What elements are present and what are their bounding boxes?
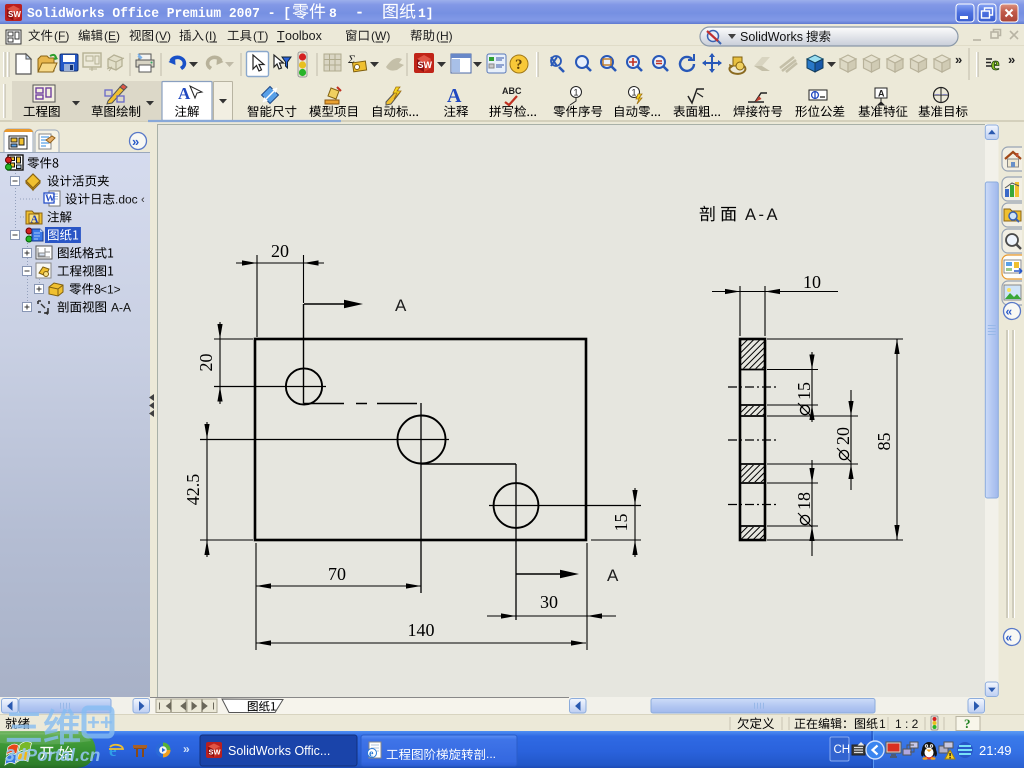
dim 10: dim line + arrows <box>712 291 838 293</box>
status bar <box>0 714 1024 731</box>
canvas vertical scrollbar <box>985 124 999 697</box>
titlebar close button <box>1000 4 1018 22</box>
svg-text:?: ? <box>964 716 971 731</box>
svg-text:SolidWorks: SolidWorks <box>740 30 803 44</box>
dim 20 top: extension lines <box>256 255 258 337</box>
grid icon (disabled) <box>324 54 341 71</box>
centerline C3 / 15 extension <box>489 505 641 507</box>
svg-text:CH: CH <box>834 744 851 756</box>
sheet nav button 2 <box>172 699 187 713</box>
dim 15: extension line bottom <box>591 539 641 541</box>
svg-text:3dPortal.cn: 3dPortal.cn <box>5 745 100 765</box>
svg-text:W: W <box>45 194 55 205</box>
save icon <box>60 54 78 71</box>
草图绘制 tab button <box>105 84 127 104</box>
svg-text:»: » <box>955 52 962 67</box>
svg-text:(H): (H) <box>436 29 453 43</box>
dim 10: extension lines <box>739 286 741 336</box>
panel flyout chevron button <box>130 133 147 150</box>
tray divider <box>871 731 873 768</box>
开始 label <box>40 746 73 760</box>
svg-text:»: » <box>183 742 190 756</box>
display style cube icon <box>807 55 823 72</box>
sheet tab 图纸1 <box>222 699 283 713</box>
dim 42.5: dim line + arrows <box>206 422 208 557</box>
dim ø18: dim line + arrows <box>811 460 813 556</box>
拼写检 button <box>502 86 522 105</box>
dim ø20: dim line + arrows <box>850 390 852 490</box>
open folder icon <box>38 55 58 72</box>
tree item 图纸1 <box>11 231 20 240</box>
dim 42.5: text <box>183 474 203 506</box>
sheet tab strip <box>150 697 570 714</box>
taskpane home button <box>1002 147 1022 171</box>
front view outline <box>255 339 586 540</box>
svg-text:(E): (E) <box>104 29 120 43</box>
基准目标 button <box>934 88 949 103</box>
dim 30: dim line + arrows <box>487 615 616 617</box>
dim ø20: extension lines <box>767 415 858 417</box>
select filter icon <box>274 55 291 69</box>
svg-text:oolbox: oolbox <box>285 29 323 43</box>
模型项目 button <box>325 87 341 104</box>
svg-text:1]: 1] <box>418 6 434 21</box>
svg-text:1: 1 <box>632 88 637 98</box>
svg-text:(T): (T) <box>253 29 268 43</box>
svg-text:SolidWorks Offic...: SolidWorks Offic... <box>228 744 330 758</box>
dim ø20: text <box>833 427 853 462</box>
standard toolbar strip <box>0 46 1024 80</box>
svg-text:(V): (V) <box>155 29 171 43</box>
taskpane explore button <box>1002 203 1022 227</box>
commandmanager strip <box>0 80 1024 122</box>
print icon <box>136 54 154 72</box>
SolidWorks search box <box>700 27 958 46</box>
titlebar SolidWorks icon <box>5 4 22 21</box>
centerline C2 / 42.5 extension <box>200 439 449 441</box>
taskpane res button <box>1002 177 1022 201</box>
SW red cube icon <box>414 53 434 73</box>
svg-text:e: e <box>369 749 374 760</box>
commandmanager control area background <box>12 81 233 121</box>
tree guide lines <box>16 170 41 307</box>
quick launch icons <box>109 741 123 760</box>
section view body outline <box>740 339 765 540</box>
自动标 button <box>386 87 401 105</box>
svg-text:‹: ‹ <box>141 194 145 206</box>
taskbar <box>0 731 1024 768</box>
svg-text:ABC: ABC <box>502 86 522 96</box>
redo icon (disabled) <box>208 57 224 69</box>
svg-text:...: ... <box>486 747 496 761</box>
svg-text:.doc: .doc <box>115 193 138 207</box>
taskpane search button <box>1002 229 1022 253</box>
svg-text:1: 1 <box>879 717 886 731</box>
dim 15: dim line + arrows <box>634 488 636 557</box>
section display icon (disabled) <box>780 57 797 72</box>
dim 20 left: extension line <box>214 338 253 340</box>
zoom fit icon <box>576 56 591 71</box>
display mode cube 4 (disabled) <box>911 55 927 72</box>
start button <box>0 731 96 768</box>
display mode cube 2 (disabled) <box>864 55 880 72</box>
dim 15: text <box>611 514 631 532</box>
svg-text:A: A <box>447 85 462 107</box>
dim 70: extension line left <box>255 543 257 650</box>
centerline C1 <box>214 386 326 388</box>
windows flag <box>5 742 32 765</box>
soft keyboard icon <box>852 742 865 755</box>
window display icon <box>451 54 471 73</box>
dim 70: dim line + arrows <box>256 585 421 587</box>
help icon <box>510 55 528 73</box>
形位公差 button <box>809 90 827 100</box>
menu items <box>29 29 53 41</box>
left panel horizontal scrollbar <box>0 697 150 714</box>
status: help box <box>956 717 980 731</box>
taskpane bottom chevron <box>1004 629 1021 646</box>
property manager tab 2 <box>35 130 59 152</box>
section view centerlines <box>728 386 778 388</box>
svg-text:(I): (I) <box>205 29 216 43</box>
svg-text:<1>: <1> <box>100 283 121 297</box>
sheet nav button 4 <box>203 699 218 713</box>
dim 20 top: dim line + arrows <box>236 262 324 264</box>
svg-text:?: ? <box>515 57 523 73</box>
tree item 注解 <box>26 211 42 226</box>
tray icon shield <box>957 742 973 758</box>
status: traffic light icon <box>931 716 938 730</box>
feature tree panel background <box>0 152 150 697</box>
表面粗 button <box>688 89 704 103</box>
canvas horizontal scrollbar <box>569 697 985 714</box>
traffic light icon <box>298 52 307 77</box>
工程图 tab button <box>33 85 55 102</box>
pan icon <box>702 53 722 73</box>
new document icon <box>16 54 31 74</box>
svg-text:++: ++ <box>87 710 113 735</box>
svg-text:A: A <box>878 89 885 99</box>
options list icon <box>487 54 506 73</box>
dim 20 left: dim line + arrows <box>219 322 221 404</box>
svg-text:8: 8 <box>329 6 337 21</box>
drawing canvas <box>157 124 985 697</box>
智能尺寸 button <box>262 87 279 104</box>
feature tree tab 1 (selected) <box>4 129 33 152</box>
svg-text:SolidWorks Office Premium 2007: SolidWorks Office Premium 2007 - [ <box>27 6 291 22</box>
section arrow bottom <box>516 573 568 575</box>
svg-text:e: e <box>991 54 999 75</box>
make assembly icon (disabled) <box>107 55 124 71</box>
dim ø18: text <box>794 492 814 527</box>
undo icon <box>169 57 185 69</box>
zoom area icon <box>601 56 616 71</box>
dim 30: extension line right <box>586 543 588 650</box>
view toolbar grip <box>536 52 538 77</box>
display mode cube 1 (disabled) <box>840 55 856 72</box>
3d rotate icon <box>729 57 745 74</box>
zoom selection icon <box>653 56 668 71</box>
CH language button <box>830 737 849 761</box>
zoom previous icon <box>551 56 564 72</box>
status: 正在编辑：图纸1 <box>795 718 878 729</box>
hole circle C2 (ø20) <box>398 416 446 464</box>
dim 85: text <box>874 433 894 451</box>
dim ø15: dim line + arrows <box>811 352 813 422</box>
svg-text:-: - <box>355 5 364 22</box>
titlebar min button <box>956 4 974 22</box>
section view hole edge lines <box>740 369 765 371</box>
tray area <box>874 731 1024 768</box>
tray icon network <box>903 742 918 755</box>
tree item 图纸格式1 <box>23 249 32 258</box>
dim 85: extension lines <box>767 338 903 340</box>
sheet nav button 3 <box>187 699 202 713</box>
svg-text:e: e <box>109 741 117 760</box>
panel splitter arrows <box>149 394 154 401</box>
tree item 工程视图1 <box>23 267 32 276</box>
tree item 设计活页夹 <box>11 177 20 186</box>
client area frame <box>0 124 1024 716</box>
svg-text:(F): (F) <box>54 29 69 43</box>
svg-text:»: » <box>132 134 139 149</box>
taskpane image button <box>1002 281 1022 305</box>
eDrawings icon <box>986 54 999 75</box>
task button 1: SolidWorks (active) <box>200 735 357 766</box>
taskpane palette button <box>1002 255 1022 279</box>
dim ø15: text <box>794 382 814 417</box>
svg-text:SW: SW <box>8 10 21 19</box>
tree item 零件8<1> <box>35 285 44 294</box>
svg-text:A: A <box>178 84 191 103</box>
shadow icon (disabled) <box>754 57 770 71</box>
svg-text:«: « <box>1006 631 1013 645</box>
select arrow (pressed) <box>247 52 269 77</box>
svg-text:»: » <box>1008 52 1015 67</box>
drawing section view title 剖面 <box>700 206 736 222</box>
svg-text:1 : 2: 1 : 2 <box>895 717 919 731</box>
注解 tab button (active) <box>162 82 212 121</box>
watermark 三维网 logo <box>7 709 79 744</box>
section line A-A vertical through C1 <box>303 304 305 404</box>
零件序号 button <box>570 87 582 106</box>
hole circle C1 (ø15) <box>286 368 322 404</box>
task button 2: 工程图阶梯旋转剖 <box>361 735 517 766</box>
svg-text:A: A <box>31 214 39 226</box>
svg-text:1: 1 <box>574 88 579 98</box>
toolbar grip <box>4 52 8 77</box>
tray icon warning <box>939 742 955 759</box>
section line A-A vertical through C3 + 30 extension <box>515 464 517 620</box>
dim 140: dim line + arrows <box>256 642 586 644</box>
title bar <box>0 0 1024 24</box>
tray icon QQ penguin <box>922 742 936 760</box>
MDI child icon <box>6 30 21 44</box>
tree item 设计日志.doc <box>44 191 60 206</box>
display mode cube 5 (disabled) <box>934 55 950 72</box>
tree item 零件8 <box>6 155 24 170</box>
基准特征 button <box>875 88 887 105</box>
hole circle C3 (ø18) <box>494 483 539 528</box>
焊接符号 button <box>748 93 767 102</box>
svg-text:SW: SW <box>418 60 433 70</box>
svg-text:A-A: A-A <box>111 301 131 315</box>
svg-text:21:49: 21:49 <box>979 743 1012 758</box>
sheet nav button 1 <box>156 699 171 713</box>
taskpane collapse chevron <box>1004 303 1021 320</box>
active tab underline <box>148 120 341 122</box>
section line A-A vertical through C2 + 70 extension <box>420 403 422 593</box>
section line A-A dash-dot jog C1 to C2 <box>304 403 421 405</box>
dim 20 left: text <box>196 354 216 372</box>
titlebar restore button <box>978 4 996 22</box>
menu bar <box>0 24 1024 46</box>
status bar text 就绪 <box>6 718 30 730</box>
menubar MDI window buttons (inactive) <box>973 30 1018 41</box>
svg-text:T: T <box>277 29 285 43</box>
taskpane groove <box>1007 330 1013 618</box>
tree item 剖面视图 A-A <box>23 303 32 312</box>
measure icon <box>347 52 367 72</box>
dim ø18: extension lines <box>767 482 818 484</box>
svg-text:(W): (W) <box>371 29 390 43</box>
status: 欠定义 <box>729 717 731 730</box>
section arrow top <box>304 303 352 305</box>
display mode cube 3 (disabled) <box>887 55 903 72</box>
tray icon monitor <box>886 742 901 757</box>
svg-text:«: « <box>1006 305 1013 319</box>
dim 85: dim line + arrows <box>896 339 898 540</box>
dim 42.5: extension line bottom <box>200 539 253 541</box>
dimension flag icon (disabled) <box>386 58 404 71</box>
zoom in/out icon <box>627 56 642 71</box>
section line A-A jog C2 to C3 <box>421 463 516 465</box>
注释 button <box>447 85 462 107</box>
make drawing icon (disabled) <box>83 53 101 71</box>
tray collapse chevron <box>866 741 884 759</box>
rotate view icon <box>680 54 694 71</box>
dim ø15: extension lines <box>767 369 818 371</box>
自动零 button <box>629 87 643 105</box>
svg-text:SW: SW <box>209 748 222 757</box>
